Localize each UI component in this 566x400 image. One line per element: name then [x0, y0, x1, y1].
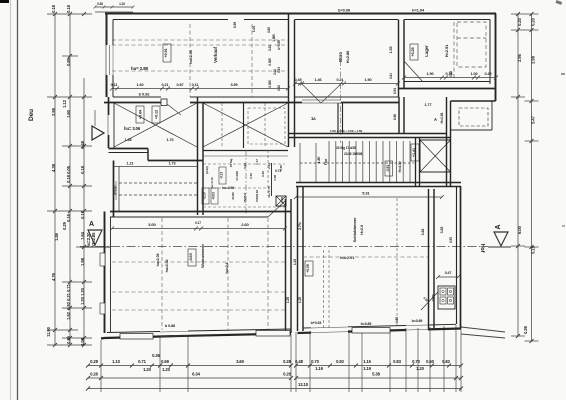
cabinet diagonal [421, 292, 438, 310]
svg-text:0.29: 0.29 [62, 221, 67, 230]
svg-text:1.19: 1.19 [315, 366, 324, 371]
left dim tick row 5 [62, 185, 92, 187]
svg-text:0.21: 0.21 [66, 292, 71, 301]
level box -0.13 [219, 167, 226, 184]
wall: band divider 1 west [337, 103, 339, 134]
wall: wohnzimmer top outer [110, 211, 291, 213]
wall: cluster divider [243, 103, 245, 148]
wall: bottom inner left sloped a [107, 332, 160, 333]
wall: lager right outer [495, 14, 497, 102]
svg-text:0.26: 0.26 [90, 372, 99, 377]
svg-text:1.12: 1.12 [62, 99, 67, 108]
svg-text:-0.10: -0.10 [203, 192, 207, 199]
wall: corridor bottom left second face [109, 152, 149, 154]
svg-text:1.20: 1.20 [80, 287, 85, 296]
svg-text:10/70: 10/70 [431, 294, 435, 301]
svg-text:h=1.04: h=1.04 [412, 8, 425, 13]
svg-text:0.71: 0.71 [138, 359, 147, 364]
level box -0.60 [188, 249, 196, 266]
svg-text:15 Stg: 15 Stg [229, 158, 233, 167]
svg-text:hu=2.01: hu=2.01 [340, 255, 355, 260]
svg-text:0.20: 0.20 [268, 45, 272, 51]
window left lower 1 [100, 253, 105, 266]
dashed line kitchen a [119, 182, 197, 184]
svg-text:0.26: 0.26 [283, 372, 292, 377]
scan border line dark [17, 0, 19, 400]
svg-text:+0.29: +0.29 [411, 47, 415, 56]
bottom dim extension line 5 [295, 332, 297, 392]
bottom dim extension line 15 [460, 325, 462, 392]
svg-text:0.36: 0.36 [152, 353, 161, 358]
svg-text:1.80: 1.80 [317, 157, 321, 164]
dim row under band [296, 128, 446, 130]
left dim tick row 12 [47, 344, 92, 346]
X-box small at divider top [276, 196, 286, 206]
wall: stair end stub west [415, 138, 417, 187]
svg-text:A: A [434, 117, 437, 122]
yard wall line upper [461, 327, 505, 332]
dashed ceiling line verkauf b [112, 70, 288, 72]
scan fold line light [10, 0, 12, 400]
section marker A left: base line [80, 246, 110, 248]
wall: bottom inner left sloped b [188, 329, 291, 331]
svg-text:0.20: 0.20 [277, 85, 281, 91]
wall: corridor left outer b [108, 135, 110, 148]
svg-text:1.08: 1.08 [273, 175, 277, 181]
wall: buero bottom outer b [341, 102, 399, 104]
svg-text:1.60: 1.60 [137, 83, 144, 87]
svg-text:4.76: 4.76 [51, 272, 56, 281]
svg-text:Deu: Deu [28, 109, 35, 121]
svg-text:hu= 3.06: hu= 3.06 [124, 126, 141, 131]
wall: schlafzimmer right west-face [428, 189, 430, 330]
wall: right A room east east-face [450, 101, 452, 186]
svg-text:1.20: 1.20 [80, 296, 85, 305]
wall: divider buero/lager west face [398, 20, 400, 98]
bottom dim extension line 11 [417, 328, 419, 392]
svg-text:0.25: 0.25 [485, 72, 492, 76]
svg-text:3.59: 3.59 [231, 83, 238, 87]
svg-text:hu= 2.88: hu= 2.88 [131, 66, 149, 71]
corridor entry gap thin lines [107, 115, 109, 135]
corridor cross X2 diagonal b [203, 103, 288, 147]
center dashline band [340, 60, 342, 143]
bottom dim extension line 3 [187, 336, 189, 392]
bottom dim extension line 6 [309, 331, 311, 392]
svg-text:b=0.97: b=0.97 [114, 185, 118, 195]
svg-text:Schlafzimmer: Schlafzimmer [352, 217, 357, 242]
window kitchen left [115, 181, 117, 200]
dashed line kitchen b [119, 194, 197, 196]
left dim chain line 3 [83, 78, 85, 345]
scan black bar top-left corner [0, 0, 9, 3]
shaft rect [420, 140, 451, 172]
section line A-A dash-dot [80, 246, 488, 248]
svg-text:0.48: 0.48 [80, 140, 85, 149]
svg-text:0.11: 0.11 [111, 83, 118, 87]
dashed horizontal wohnzimmer b [112, 291, 285, 293]
section marker A left: triangle [88, 230, 102, 245]
svg-text:hu=3.13: hu=3.13 [210, 177, 214, 188]
svg-text:0.60: 0.60 [426, 359, 435, 364]
wall: left exterior outer lower [104, 212, 106, 334]
left dim tick row 4 [62, 145, 92, 147]
window thin lines buero bottom [302, 99, 341, 101]
svg-text:H=1.81: H=1.81 [440, 112, 444, 123]
svg-text:0.11: 0.11 [192, 83, 199, 87]
door gap thin lines left [160, 330, 188, 333]
shaft diagonal a [420, 140, 451, 172]
shaft diagonal b [420, 140, 451, 172]
svg-text:2.95: 2.95 [51, 107, 56, 116]
dim row verkauf line [112, 88, 288, 90]
svg-text:13.10: 13.10 [298, 382, 309, 387]
wall: bottom outer right sloped c [428, 327, 461, 330]
svg-text:2.95: 2.95 [517, 53, 522, 62]
svg-text:5.15: 5.15 [531, 245, 536, 254]
svg-text:0.54: 0.54 [393, 88, 397, 94]
bottom dim row1 line right [296, 365, 461, 367]
svg-text:0.365: 0.365 [268, 80, 272, 88]
window left upper thin lines [109, 45, 111, 75]
bottom dim row1 line left [88, 365, 291, 367]
corridor cross X1 diagonal b [114, 103, 197, 147]
wall: thick divider west inner [290, 199, 292, 333]
svg-text:0.70: 0.70 [412, 359, 421, 364]
svg-text:1.25: 1.25 [298, 297, 302, 303]
svg-text:0.45: 0.45 [295, 78, 302, 82]
svg-text:0.48: 0.48 [295, 359, 304, 364]
svg-text:-0.51: -0.51 [386, 165, 390, 173]
svg-text:0.92: 0.92 [66, 301, 71, 310]
wall: thick divider west outer [285, 199, 287, 334]
svg-text:1.90: 1.90 [365, 78, 372, 82]
dashed mid line lager [457, 37, 486, 39]
wall: top exterior inner mid part [244, 19, 288, 21]
svg-text:+0.04: +0.04 [139, 109, 143, 119]
svg-text:3.00: 3.00 [148, 222, 156, 227]
wall: mid divider east face [202, 103, 204, 215]
svg-text:0.05: 0.05 [66, 165, 71, 174]
svg-text:+0.12: +0.12 [155, 110, 159, 119]
wall: kitchen left inner [118, 166, 120, 211]
svg-text:1.98: 1.98 [80, 257, 85, 266]
left dim tick row 7 [76, 246, 92, 248]
svg-text:0.365: 0.365 [268, 58, 272, 66]
wall: kitchen left outer [113, 161, 115, 218]
svg-text:5.47: 5.47 [531, 115, 536, 124]
dashed vertical wohnzimmer c [267, 218, 269, 330]
svg-text:0.65: 0.65 [395, 317, 399, 323]
bottom dim extension line 9 [389, 329, 391, 392]
svg-text:Wohnzimmer: Wohnzimmer [200, 243, 205, 268]
svg-text:hu=2.4: hu=2.4 [225, 262, 229, 273]
svg-text:0.16: 0.16 [446, 72, 453, 76]
wall: corridor step vertical [147, 149, 149, 161]
annex outline bottom [451, 129, 493, 131]
dashed vertical wohnzimmer a [161, 218, 163, 330]
cabinet squares [440, 288, 446, 295]
svg-text:0.28: 0.28 [90, 359, 99, 364]
wall stub cluster right [271, 163, 273, 196]
dashed horizontal cluster rows [203, 163, 285, 165]
wall: band divider 2 east [403, 97, 405, 134]
svg-text:Verkauf: Verkauf [213, 46, 218, 62]
svg-text:1.985: 1.985 [272, 34, 276, 42]
left dim tick row 9 [62, 307, 92, 309]
wall: band bottom lower face [289, 137, 452, 139]
svg-text:H=2.0: H=2.0 [360, 225, 364, 235]
svg-text:0.99: 0.99 [233, 22, 237, 28]
dim line under corridor [113, 166, 197, 168]
wall: bottom outer right sloped a [298, 332, 312, 334]
entry stub line [94, 110, 96, 126]
corridor cross X1 diagonal a [114, 103, 197, 147]
svg-text:1.10: 1.10 [112, 359, 121, 364]
left dim tick row 11 [62, 337, 92, 339]
cabinet outline [438, 286, 455, 309]
wall: top exterior outer [105, 13, 496, 15]
dashed line verkauf extra [251, 24, 253, 97]
dashed vertical cluster b [267, 150, 269, 196]
svg-text:15 Stg 17.4/28: 15 Stg 17.4/28 [336, 146, 356, 150]
svg-text:2.7%: 2.7% [298, 221, 302, 230]
svg-text:1.60: 1.60 [66, 109, 71, 118]
bottom dim extension line 10 [405, 328, 407, 392]
svg-text:0.69: 0.69 [161, 359, 170, 364]
svg-text:1.59 + 4.59 + 4.59 + 1.59: 1.59 + 4.59 + 4.59 + 1.59 [330, 129, 363, 133]
step rect right [352, 328, 390, 334]
svg-text:Hof: Hof [479, 244, 485, 253]
window V symbol buero [302, 84, 341, 103]
annex outline right [491, 101, 493, 130]
bottom dim extension line 13 [443, 326, 445, 392]
window left lower 2 [100, 303, 105, 314]
dashed horizontal schlafzimmer [303, 256, 428, 258]
svg-text:6.00: 6.00 [517, 225, 522, 234]
step rect left [120, 334, 153, 340]
wall: divider buero/lager east face [403, 20, 405, 89]
dashed inner rect lager [457, 22, 486, 67]
svg-text:2.60: 2.60 [241, 222, 249, 227]
svg-text:0.17: 0.17 [80, 210, 85, 219]
bottom dim row3 line full [88, 388, 461, 390]
svg-text:0.20: 0.20 [517, 17, 522, 26]
svg-text:1.20: 1.20 [162, 367, 171, 372]
dim line y156 cluster [203, 155, 288, 157]
svg-text:0.16: 0.16 [66, 213, 71, 222]
dashed vertical schlafzimmer double b [328, 250, 330, 330]
wall: left exterior outer upper b [106, 75, 108, 97]
svg-text:0.21: 0.21 [162, 83, 169, 87]
svg-text:-0.60: -0.60 [189, 253, 193, 261]
svg-text:0.90/2.02: 0.90/2.02 [255, 190, 259, 202]
annex inner dashed rect [459, 108, 488, 126]
svg-text:5.31: 5.31 [362, 191, 370, 196]
svg-text:3.60: 3.60 [236, 359, 245, 364]
bottom dim extension line 14 [455, 325, 457, 392]
svg-text:0.18: 0.18 [66, 174, 71, 183]
svg-text:+0.05: +0.05 [306, 264, 310, 273]
svg-text:0.90: 0.90 [393, 114, 397, 120]
svg-text:1.23: 1.23 [293, 259, 297, 265]
svg-text:0.89: 0.89 [66, 57, 71, 66]
wall: bottom inner right a [303, 327, 311, 329]
svg-text:0.18: 0.18 [51, 4, 56, 13]
wall: lager right inner [489, 20, 491, 85]
svg-text:-0.13: -0.13 [220, 172, 224, 179]
left dim tick row 8 [62, 281, 92, 283]
wall: corridor bottom right [148, 160, 203, 162]
wall: verkauf bottom outer b [190, 102, 302, 104]
svg-text:1.25: 1.25 [286, 297, 290, 303]
svg-text:hu=2.39: hu=2.39 [156, 254, 160, 267]
scan speck right lower [562, 225, 565, 227]
wall: corridor left inner [113, 103, 115, 148]
svg-text:b+0.93: b+0.93 [311, 321, 322, 325]
svg-text:1.64: 1.64 [80, 231, 85, 240]
level box +0.91 [163, 44, 171, 62]
door gap thin lines right1 [311, 327, 348, 328]
wall: corridor left outer a [108, 97, 110, 115]
wall: stair end stub east [419, 138, 421, 187]
wall: bottom inner right c [428, 323, 456, 326]
wall: band divider 1 east [342, 103, 344, 134]
level box +0.12 [152, 106, 160, 123]
entry arrow triangle [92, 126, 104, 140]
svg-text:0.36: 0.36 [97, 2, 103, 6]
svg-text:1.15: 1.15 [363, 359, 372, 364]
stair walk dashed line [300, 162, 414, 164]
wall: verkauf bottom inner b [190, 96, 288, 98]
svg-text:1.53: 1.53 [389, 47, 393, 54]
svg-text:A: A [89, 221, 94, 228]
wall: band divider 2 west [398, 97, 400, 134]
left dim tick row 10 [47, 329, 78, 331]
svg-text:21/26 15/05/8: 21/26 15/05/8 [344, 152, 363, 156]
wall: divider verkauf/buero east face [294, 20, 296, 148]
svg-text:A: A [495, 224, 502, 229]
window V symbol verkauf right [197, 89, 288, 103]
svg-text:b+0.99: b+0.99 [277, 40, 281, 50]
svg-text:0.93: 0.93 [277, 67, 281, 73]
wall: verkauf bottom inner [113, 96, 161, 98]
svg-text:1.20: 1.20 [143, 367, 152, 372]
svg-text:b 0.92: b 0.92 [139, 92, 151, 97]
dashed vertical schlafzimmer c [396, 198, 398, 325]
scan speck right edge [561, 73, 565, 75]
wall: stairs bottom lower face [296, 186, 461, 188]
svg-text:0.26: 0.26 [66, 335, 71, 344]
section marker A right: base line [488, 246, 511, 248]
wall: lager bottom outer [399, 88, 496, 90]
dashed lines cluster [221, 103, 223, 148]
wohnzimmer door swing [268, 200, 286, 217]
svg-text:0.71: 0.71 [66, 283, 71, 292]
svg-text:1.90: 1.90 [427, 72, 434, 76]
wall: thick divider east outer [297, 186, 299, 331]
svg-text:4.38: 4.38 [51, 163, 56, 172]
bottom dim extension line 1 [100, 340, 102, 392]
wall: cluster horizontal [203, 150, 288, 152]
section marker A right: triangle [494, 232, 508, 246]
svg-text:1.00: 1.00 [471, 72, 478, 76]
svg-text:1.19: 1.19 [363, 366, 372, 371]
svg-text:0.28: 0.28 [283, 359, 292, 364]
svg-text:+0.91: +0.91 [164, 48, 168, 57]
left dim chain line 2 [69, 14, 71, 345]
left dim tick row 2 [62, 55, 78, 57]
svg-text:hu=1.78: hu=1.78 [267, 186, 271, 197]
bottom dim extension line 2 [159, 336, 161, 392]
level box +0.04 [136, 106, 144, 123]
left dim tick row 1 [47, 13, 92, 15]
svg-text:11.90: 11.90 [46, 326, 51, 337]
svg-text:0.82: 0.82 [442, 359, 451, 364]
wall: corridor bottom left [109, 148, 149, 150]
wall: wohnzimmer top inner [110, 216, 268, 218]
svg-text:15/05.8: 15/05.8 [243, 193, 247, 203]
door gap thin lines right2 [406, 324, 428, 327]
yard wall line lower [461, 334, 505, 338]
wall: schlafzimmer right east-face [433, 189, 435, 330]
svg-text:b=0.99: b=0.99 [338, 8, 351, 13]
bottom dim extension line 12 [429, 327, 431, 392]
dashed small rect cluster [248, 108, 285, 144]
right dim chain line 1 [517, 14, 519, 336]
svg-text:1.73: 1.73 [169, 162, 176, 166]
svg-text:b=0.89: b=0.89 [412, 319, 423, 323]
wall: top exterior inner lager part [404, 19, 490, 21]
svg-text:H=2.91: H=2.91 [444, 44, 449, 57]
bottom dim row2 line left [88, 377, 291, 379]
lager door swing diagonal [404, 61, 423, 82]
wall: band bottom upper face [289, 133, 447, 135]
svg-text:Lager: Lager [424, 45, 429, 57]
dashed horizontal wohnzimmer c [112, 309, 285, 311]
level box +0.03 [211, 188, 218, 204]
svg-text:0.71: 0.71 [275, 169, 281, 173]
wall: left exterior outer upper a [106, 14, 108, 46]
svg-text:0.18: 0.18 [66, 4, 71, 13]
dim row lager line [404, 77, 496, 79]
svg-text:17.2/26: 17.2/26 [235, 171, 239, 181]
svg-text:1.10: 1.10 [119, 2, 125, 6]
svg-text:0.70: 0.70 [311, 359, 320, 364]
dashed horizontal wohnzimmer a [112, 261, 285, 263]
wall: stairs bottom upper face [296, 182, 461, 184]
bottom dim extension line 8 [361, 330, 363, 392]
svg-text:1.77: 1.77 [425, 103, 432, 107]
svg-text:0.55: 0.55 [449, 237, 453, 243]
step rect mid [256, 331, 290, 337]
svg-text:hu=2.56: hu=2.56 [189, 50, 193, 64]
wall: lager bottom inner [404, 81, 490, 83]
bottom dim row2 line right [296, 377, 461, 379]
level box +0.05 [305, 261, 313, 276]
left dim chain line 1 [54, 14, 56, 345]
svg-text:6.34: 6.34 [192, 372, 201, 377]
wall: mid divider west face [197, 97, 199, 215]
wall: left exterior inner upper b [112, 75, 114, 97]
svg-text:0.17: 0.17 [195, 221, 201, 225]
wall: bottom outer right sloped b [348, 330, 406, 332]
svg-text:2.98: 2.98 [531, 55, 536, 64]
dim row buero line [295, 83, 398, 85]
svg-text:21/26: 21/26 [231, 192, 235, 200]
wall: bottom inner right b [348, 326, 406, 327]
bottom dim extension line 4 [290, 334, 292, 392]
